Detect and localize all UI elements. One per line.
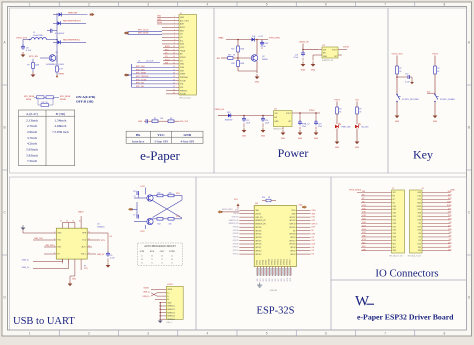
svg-text:RESE: RESE xyxy=(26,99,32,101)
svg-text:EPD_VSH: EPD_VSH xyxy=(136,69,145,71)
svg-text:GPIO13: GPIO13 xyxy=(278,259,280,265)
svg-text:IO23: IO23 xyxy=(448,195,452,197)
svg-text:GND-GB: GND-GB xyxy=(270,290,278,292)
svg-text:GPIO18: GPIO18 xyxy=(289,234,295,236)
svg-text:15: 15 xyxy=(66,221,68,223)
svg-text:GND: GND xyxy=(355,147,360,149)
svg-text:GPIO16: GPIO16 xyxy=(289,244,295,246)
svg-text:GPIO26: GPIO26 xyxy=(233,243,239,245)
svg-text:DTR: DTR xyxy=(141,186,146,188)
svg-text:IO33: IO33 xyxy=(362,215,366,217)
svg-text:GND: GND xyxy=(433,121,438,123)
svg-text:RXD0: RXD0 xyxy=(417,206,421,208)
svg-text:IO17: IO17 xyxy=(312,240,316,242)
svg-text:MFConn-Seite: MFConn-Seite xyxy=(180,96,192,99)
svg-text:GND: GND xyxy=(275,121,280,123)
svg-text:GPIO32: GPIO32 xyxy=(233,233,239,235)
svg-text:GPIO34: GPIO34 xyxy=(255,227,261,229)
svg-text:VSYS_3V3(O): VSYS_3V3(O) xyxy=(349,190,362,192)
svg-text:CHIP_E: CHIP_E xyxy=(312,223,318,225)
svg-text:SHIELD3: SHIELD3 xyxy=(167,312,175,314)
svg-text:5.83inch: 5.83inch xyxy=(26,153,38,157)
svg-text:GND: GND xyxy=(281,138,286,140)
svg-text:IO2: IO2 xyxy=(312,254,315,256)
svg-text:GPIO32: GPIO32 xyxy=(255,234,261,236)
svg-text:C1: C1 xyxy=(138,61,140,63)
svg-text:BS: BS xyxy=(136,133,140,137)
svg-text:GPIO10: GPIO10 xyxy=(269,259,271,265)
svg-text:IO12: IO12 xyxy=(362,232,366,234)
svg-text:RESE2: RESE2 xyxy=(60,99,66,101)
svg-text:VP: VP xyxy=(393,199,395,201)
svg-text:VBUS_IN: VBUS_IN xyxy=(215,109,225,111)
svg-text:4.7uF: 4.7uF xyxy=(26,50,32,52)
svg-text:3: 3 xyxy=(147,2,149,6)
svg-text:GPIO35: GPIO35 xyxy=(233,230,239,232)
svg-text:IO26: IO26 xyxy=(393,223,397,225)
svg-text:R7: R7 xyxy=(84,266,86,268)
svg-text:IO2: IO2 xyxy=(418,240,421,242)
svg-text:IO12: IO12 xyxy=(393,233,397,235)
svg-text:GPIO33: GPIO33 xyxy=(233,237,239,239)
svg-text:USB_RXD: USB_RXD xyxy=(45,245,55,247)
svg-text:IO5: IO5 xyxy=(449,222,452,224)
svg-text:IO32: IO32 xyxy=(362,212,366,214)
svg-text:GPIO25: GPIO25 xyxy=(233,240,239,242)
svg-text:USB_D+: USB_D+ xyxy=(143,296,151,298)
svg-text:IO35: IO35 xyxy=(393,209,397,211)
svg-text:R16: R16 xyxy=(262,197,265,199)
svg-text:GPIO21: GPIO21 xyxy=(289,217,295,219)
svg-text:VDD33: VDD33 xyxy=(233,213,238,215)
svg-text:GPIO17: GPIO17 xyxy=(289,240,295,242)
svg-text:GPIO14: GPIO14 xyxy=(281,259,283,265)
svg-text:SHIELD5: SHIELD5 xyxy=(167,319,175,321)
svg-text:SD6: SD6 xyxy=(275,278,277,281)
svg-text:R11: R11 xyxy=(158,193,161,195)
svg-text:2.13inch: 2.13inch xyxy=(26,118,38,122)
svg-text:SD2: SD2 xyxy=(393,243,396,245)
svg-text:GPIO33: GPIO33 xyxy=(255,237,261,239)
svg-text:GND: GND xyxy=(138,121,143,123)
svg-text:GPIO4: GPIO4 xyxy=(290,247,295,249)
svg-text:D12: D12 xyxy=(227,112,230,114)
svg-text:2: 2 xyxy=(88,2,90,6)
svg-text:GPIO22: GPIO22 xyxy=(289,220,295,222)
svg-text:SENSOR_VP: SENSOR_VP xyxy=(229,220,239,222)
svg-text:IO19: IO19 xyxy=(448,215,452,217)
svg-text:USB_D-: USB_D- xyxy=(143,291,150,293)
svg-text:4: 4 xyxy=(206,332,208,336)
svg-text:ACT#: ACT# xyxy=(82,246,87,249)
svg-text:IO23: IO23 xyxy=(418,196,422,198)
svg-text:11: 11 xyxy=(88,239,90,241)
svg-text:R18: R18 xyxy=(231,63,234,65)
svg-text:SENSOR_VN: SENSOR_VN xyxy=(229,223,240,225)
svg-text:IO22: IO22 xyxy=(448,198,452,200)
svg-text:EN: EN xyxy=(217,58,220,60)
svg-text:GPIO12: GPIO12 xyxy=(275,259,277,265)
svg-text:4: 4 xyxy=(206,2,208,6)
svg-text:GND: GND xyxy=(57,233,62,235)
svg-text:USB_5V: USB_5V xyxy=(97,254,105,256)
svg-text:GND: GND xyxy=(180,17,185,19)
svg-text:GPIO25: GPIO25 xyxy=(255,240,261,242)
svg-text:GPIO14: GPIO14 xyxy=(255,250,261,252)
svg-text:EPD_VSL: EPD_VSL xyxy=(136,86,144,88)
svg-text:SHIELD4: SHIELD4 xyxy=(167,316,175,318)
svg-text:GND: GND xyxy=(298,138,303,140)
svg-text:ON:A(0.47R): ON:A(0.47R) xyxy=(76,95,95,99)
svg-text:3-line SPI: 3-line SPI xyxy=(154,139,169,143)
svg-text:GPIO34: GPIO34 xyxy=(233,227,239,229)
svg-text:IO32: IO32 xyxy=(393,213,397,215)
svg-text:R?: R? xyxy=(399,68,401,70)
svg-text:IO17: IO17 xyxy=(418,226,422,228)
svg-text:IO22: IO22 xyxy=(312,220,316,222)
svg-text:P3V3: P3V3 xyxy=(432,54,438,56)
svg-text:J2: J2 xyxy=(392,188,394,190)
svg-text:SENSOR_VN: SENSOR_VN xyxy=(255,224,266,226)
svg-text:R17: R17 xyxy=(231,49,234,51)
svg-text:OUT: OUT xyxy=(160,251,165,253)
svg-text:IO0: IO0 xyxy=(449,236,452,238)
svg-text:NMOSFB/PREVGL: NMOSFB/PREVGL xyxy=(63,40,81,42)
svg-text:3V3: 3V3 xyxy=(362,191,365,193)
svg-text:SD0: SD0 xyxy=(418,250,421,252)
svg-text:SD7: SD7 xyxy=(278,278,280,281)
svg-text:e-Paper ESP32 Driver Board: e-Paper ESP32 Driver Board xyxy=(357,313,454,322)
svg-text:NMOSFB/PREVGH: NMOSFB/PREVGH xyxy=(63,21,81,23)
svg-text:Si1308EDL-T1-GE3: Si1308EDL-T1-GE3 xyxy=(46,64,65,66)
svg-text:CH340C: CH340C xyxy=(97,226,105,228)
svg-text:IO5: IO5 xyxy=(418,223,421,225)
svg-text:IO5: IO5 xyxy=(312,237,315,239)
svg-text:V3: V3 xyxy=(57,254,59,256)
svg-text:SGM2212-3.3: SGM2212-3.3 xyxy=(322,60,333,62)
svg-text:ESP-32S: ESP-32S xyxy=(257,306,295,317)
svg-text:Key: Key xyxy=(413,148,433,162)
svg-text:GPIO17: GPIO17 xyxy=(290,259,292,265)
svg-text:ML-LED: ML-LED xyxy=(362,127,370,129)
svg-text:SD3: SD3 xyxy=(393,247,396,249)
svg-text:RTS: RTS xyxy=(150,251,155,253)
svg-text:BUSY: BUSY xyxy=(165,46,171,48)
svg-text:R19: R19 xyxy=(228,55,231,57)
svg-text:GND: GND xyxy=(395,121,400,123)
svg-text:SD8: SD8 xyxy=(281,278,283,281)
svg-text:GPIO12: GPIO12 xyxy=(233,253,239,255)
svg-text:P3V3: P3V3 xyxy=(334,100,340,102)
svg-text:IO18: IO18 xyxy=(448,219,452,221)
svg-text:4-line SPI: 4-line SPI xyxy=(180,139,195,143)
svg-text:GPIO27: GPIO27 xyxy=(255,247,261,249)
svg-text:VCI: VCI xyxy=(180,60,183,62)
svg-text:SCL: SCL xyxy=(180,40,184,42)
svg-text:SD0: SD0 xyxy=(448,249,451,251)
svg-text:GND: GND xyxy=(323,56,328,58)
svg-text:10uH/3.9A: 10uH/3.9A xyxy=(33,34,43,37)
svg-text:GPIO2: GPIO2 xyxy=(290,254,295,256)
svg-text:VDD33: VDD33 xyxy=(343,47,349,49)
svg-text:GPIO14: GPIO14 xyxy=(233,250,239,252)
svg-text:Interface: Interface xyxy=(132,139,145,143)
svg-text:VSYS_3V3: VSYS_3V3 xyxy=(392,54,404,56)
svg-text:GPIO7: GPIO7 xyxy=(260,260,262,265)
svg-text:IO14: IO14 xyxy=(393,230,397,232)
svg-text:V3: V3 xyxy=(110,236,112,238)
svg-text:EPD_RESE: EPD_RESE xyxy=(60,96,71,98)
svg-text:S2 KEY_ROUTER: S2 KEY_ROUTER xyxy=(402,99,419,101)
svg-text:B (3R): B (3R) xyxy=(56,112,66,116)
svg-text:GND: GND xyxy=(72,279,77,281)
svg-text:GPIO19: GPIO19 xyxy=(289,227,295,229)
svg-text:GPIO12: GPIO12 xyxy=(255,254,261,256)
svg-text:6: 6 xyxy=(325,332,327,336)
svg-text:IO22: IO22 xyxy=(418,199,422,201)
svg-text:DCD: DCD xyxy=(82,240,87,242)
svg-text:VCOM: VCOM xyxy=(180,80,186,82)
svg-text:2.7inch: 2.7inch xyxy=(27,124,37,128)
svg-text:IO21: IO21 xyxy=(312,217,316,219)
svg-text:RESE: RESE xyxy=(157,22,163,24)
svg-text:R?: R? xyxy=(339,109,341,111)
svg-text:C2 0.1uF: C2 0.1uF xyxy=(146,61,154,63)
svg-text:RTS: RTS xyxy=(141,231,146,233)
svg-text:CHIP_PU: CHIP_PU xyxy=(232,216,240,218)
svg-text:2: 2 xyxy=(88,332,90,336)
svg-text:AUTO PROGRAM CIRCUIT: AUTO PROGRAM CIRCUIT xyxy=(144,245,176,248)
svg-text:IO18: IO18 xyxy=(312,233,316,235)
svg-text:GPIO11: GPIO11 xyxy=(272,259,274,265)
svg-text:EPD_VGH: EPD_VGH xyxy=(136,66,145,68)
svg-text:IO21: IO21 xyxy=(418,209,422,211)
svg-text:GPIO16: GPIO16 xyxy=(287,259,289,265)
svg-text:8: 8 xyxy=(443,2,445,6)
svg-text:VGL: VGL xyxy=(180,84,184,86)
svg-text:PWR_LED: PWR_LED xyxy=(342,127,352,129)
svg-text:GND: GND xyxy=(180,64,185,66)
svg-text:4.7uF/50V: 4.7uF/50V xyxy=(55,33,65,35)
svg-text:CHIP_E: CHIP_E xyxy=(289,224,296,226)
svg-text:GPIO8: GPIO8 xyxy=(263,260,265,265)
svg-text:GND: GND xyxy=(167,302,172,304)
svg-text:C?: C? xyxy=(133,214,135,216)
svg-text:TSCL: TSCL xyxy=(180,47,185,49)
svg-text:VUSB: VUSB xyxy=(143,288,149,290)
svg-text:SD9: SD9 xyxy=(284,278,286,281)
svg-text:TXD0: TXD0 xyxy=(417,202,421,204)
svg-text:IO2: IO2 xyxy=(449,239,452,241)
svg-text:EPD_VGL: EPD_VGL xyxy=(136,83,144,85)
svg-text:7: 7 xyxy=(384,2,386,6)
svg-text:B: B xyxy=(468,126,470,130)
svg-text:SD1: SD1 xyxy=(448,246,451,248)
svg-text:3.7inch: 3.7inch xyxy=(27,136,37,140)
svg-text:1: 1 xyxy=(29,332,31,336)
svg-text:GPIO6: GPIO6 xyxy=(257,260,259,265)
svg-text:ME6211C33: ME6211C33 xyxy=(274,128,284,130)
svg-text:EPD_SCLK: EPD_SCLK xyxy=(138,29,149,31)
svg-text:EPD_RESE: EPD_RESE xyxy=(24,96,35,98)
svg-text:4.7uF: 4.7uF xyxy=(261,46,267,48)
svg-text:EPD_VSHR: EPD_VSHR xyxy=(136,73,146,75)
svg-text:GPIO26: GPIO26 xyxy=(255,244,261,246)
svg-text:4.2inch: 4.2inch xyxy=(27,142,37,146)
svg-text:5: 5 xyxy=(266,332,268,336)
svg-text:GPIO5: GPIO5 xyxy=(290,237,295,239)
svg-text:IO14: IO14 xyxy=(362,229,366,231)
svg-text:SD2: SD2 xyxy=(263,278,265,281)
svg-text:VDD33: VDD33 xyxy=(255,213,261,215)
svg-text:5: 5 xyxy=(266,2,268,6)
svg-text:USB_D-: USB_D- xyxy=(22,260,30,262)
svg-text:SD1: SD1 xyxy=(260,278,262,281)
svg-text:2.66inch: 2.66inch xyxy=(55,124,67,128)
svg-text:TXD0: TXD0 xyxy=(312,210,316,212)
svg-text:1.54inch: 1.54inch xyxy=(55,118,67,122)
svg-text:IO15: IO15 xyxy=(418,243,422,245)
svg-text:IO27: IO27 xyxy=(393,226,397,228)
svg-text:IO35: IO35 xyxy=(362,208,366,210)
svg-text:IO25: IO25 xyxy=(362,219,366,221)
svg-text:SD2: SD2 xyxy=(362,243,365,245)
svg-text:TXD0: TXD0 xyxy=(291,210,295,212)
svg-text:VBUS: VBUS xyxy=(167,289,173,291)
svg-text:GND: GND xyxy=(255,82,260,84)
svg-text:S8050: S8050 xyxy=(262,59,269,61)
svg-text:RESE: RESE xyxy=(59,73,65,75)
svg-text:P3V3_EPD: P3V3_EPD xyxy=(269,38,280,40)
svg-text:GND: GND xyxy=(301,70,306,72)
svg-text:S3 KEY_FLASH: S3 KEY_FLASH xyxy=(440,98,455,101)
svg-text:VSL: VSL xyxy=(180,87,183,89)
svg-text:TBT_Male_P_2x9: TBT_Male_P_2x9 xyxy=(408,255,422,257)
svg-text:IO16: IO16 xyxy=(312,244,316,246)
svg-text:IO13: IO13 xyxy=(393,240,397,242)
svg-text:IO4: IO4 xyxy=(312,247,315,249)
svg-text:7: 7 xyxy=(384,332,386,336)
svg-text:W: W xyxy=(355,294,370,310)
svg-text:GPIO35: GPIO35 xyxy=(255,230,261,232)
svg-text:PREVGL: PREVGL xyxy=(180,90,187,92)
svg-text:e-Paper: e-Paper xyxy=(140,148,180,163)
svg-text:3V3: 3V3 xyxy=(393,192,396,194)
svg-text:SENSOR_VP: SENSOR_VP xyxy=(255,220,266,222)
svg-text:SD11: SD11 xyxy=(290,278,292,282)
svg-text:SCLK: SCLK xyxy=(165,59,170,61)
svg-text:C19: C19 xyxy=(405,73,408,75)
svg-text:PREVGH: PREVGH xyxy=(180,77,188,79)
svg-text:SHIELD2: SHIELD2 xyxy=(167,309,175,311)
svg-text:GPIO15: GPIO15 xyxy=(284,259,286,265)
svg-text:10: 10 xyxy=(88,246,90,248)
svg-text:R?: R? xyxy=(437,68,439,70)
svg-text:TSDA: TSDA xyxy=(180,49,186,52)
svg-text:TXD0: TXD0 xyxy=(447,201,451,203)
svg-text:8: 8 xyxy=(443,332,445,336)
svg-text:TXD_1: TXD_1 xyxy=(81,254,87,256)
svg-text:SD3: SD3 xyxy=(266,278,268,281)
svg-text:IO16: IO16 xyxy=(448,229,452,231)
svg-text:DTR: DTR xyxy=(176,216,181,218)
svg-text:GPIO0: GPIO0 xyxy=(290,250,295,252)
svg-text:R12: R12 xyxy=(158,224,161,226)
svg-text:SDI: SDI xyxy=(165,63,168,65)
svg-text:PREVGH: PREVGH xyxy=(68,13,78,15)
svg-text:BUSY: BUSY xyxy=(180,27,186,29)
svg-text:J3: J3 xyxy=(422,188,424,190)
svg-text:USB_C: USB_C xyxy=(166,322,173,324)
svg-text:IO13: IO13 xyxy=(362,239,366,241)
svg-text:IO34: IO34 xyxy=(362,205,366,207)
svg-text:6: 6 xyxy=(325,2,327,6)
svg-text:R3: R3 xyxy=(154,118,156,120)
svg-text:GND: GND xyxy=(157,16,162,18)
svg-text:IO25: IO25 xyxy=(393,219,397,221)
svg-text:B5819W: B5819W xyxy=(225,120,232,122)
svg-text:GND: GND xyxy=(335,147,340,149)
svg-text:C?: C? xyxy=(134,196,136,198)
svg-text:IO0: IO0 xyxy=(312,250,315,252)
svg-text:SD1: SD1 xyxy=(418,247,421,249)
svg-text:IO34: IO34 xyxy=(393,206,397,208)
svg-text:EPD_MOSI: EPD_MOSI xyxy=(138,33,149,35)
svg-text:14: 14 xyxy=(73,221,75,223)
svg-text:SD3: SD3 xyxy=(362,246,365,248)
svg-text:EPD_EN: EPD_EN xyxy=(29,56,38,58)
svg-text:CON1: CON1 xyxy=(167,284,173,286)
svg-text:IO16: IO16 xyxy=(418,230,422,232)
svg-text:IO26: IO26 xyxy=(362,222,366,224)
svg-text:16: 16 xyxy=(60,221,62,223)
svg-text:R?: R? xyxy=(27,65,29,67)
svg-text:IO Connectors: IO Connectors xyxy=(375,268,438,280)
svg-text:5.65inch: 5.65inch xyxy=(26,147,38,151)
svg-text:IO19: IO19 xyxy=(418,216,422,218)
svg-text:VCOM: VCOM xyxy=(180,94,186,96)
svg-text:3: 3 xyxy=(147,332,149,336)
svg-text:DTR: DTR xyxy=(140,251,145,253)
svg-text:IO33: IO33 xyxy=(393,216,397,218)
svg-text:IO4: IO4 xyxy=(418,233,421,235)
svg-text:IO21: IO21 xyxy=(448,208,452,210)
svg-text:IO18: IO18 xyxy=(418,219,422,221)
svg-text:GND: GND xyxy=(451,190,456,192)
svg-text:CHIP_PU: CHIP_PU xyxy=(255,217,263,219)
svg-text:IO19: IO19 xyxy=(312,227,316,229)
svg-text:7.5 HD inch: 7.5 HD inch xyxy=(52,130,69,134)
svg-text:IO4: IO4 xyxy=(449,232,452,234)
svg-text:2.9inch: 2.9inch xyxy=(27,130,37,134)
svg-text:7.5inch: 7.5inch xyxy=(27,159,37,163)
svg-text:VBAT: VBAT xyxy=(218,37,224,40)
svg-text:12: 12 xyxy=(88,232,90,234)
svg-text:IO15: IO15 xyxy=(448,243,452,245)
svg-text:GPIO9: GPIO9 xyxy=(266,260,268,265)
svg-text:R?: R? xyxy=(359,109,361,111)
svg-text:GND: GND xyxy=(314,138,319,140)
svg-text:C17: C17 xyxy=(133,191,136,193)
svg-text:IO17: IO17 xyxy=(448,225,452,227)
svg-text:DTR2: DTR2 xyxy=(169,251,175,253)
svg-text:SD5: SD5 xyxy=(272,278,274,281)
svg-text:SD10: SD10 xyxy=(287,278,289,282)
svg-text:Power: Power xyxy=(278,146,309,160)
svg-text:EPD_VCOM: EPD_VCOM xyxy=(136,79,147,81)
svg-text:A (0.47): A (0.47) xyxy=(26,112,39,116)
svg-text:GND: GND xyxy=(311,70,316,72)
